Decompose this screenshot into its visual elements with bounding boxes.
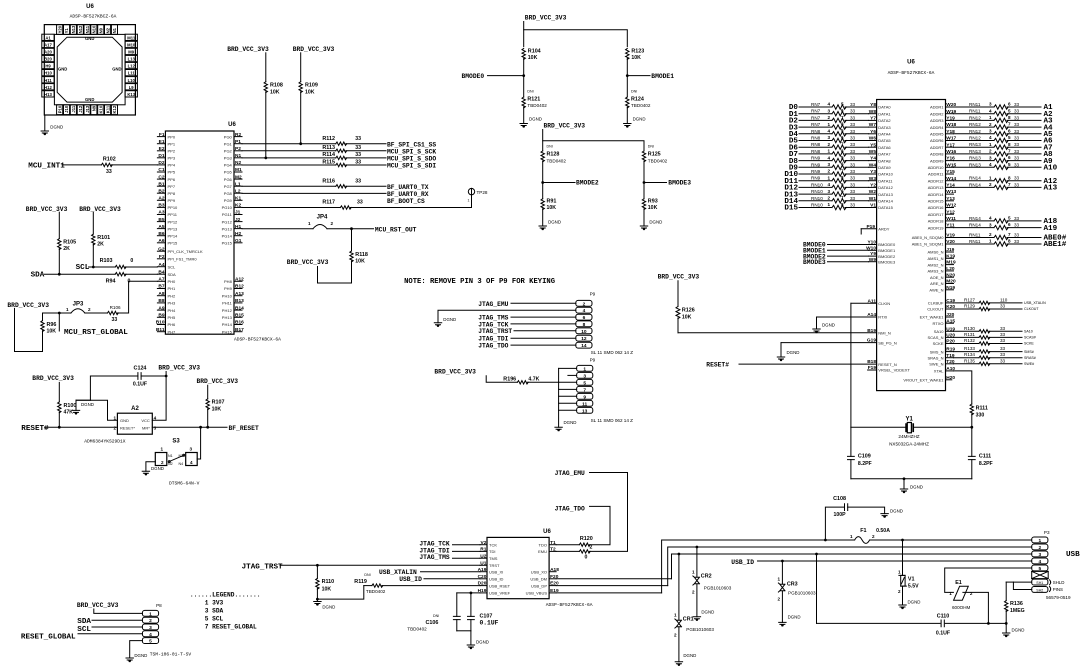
svg-text:PH11: PH11 <box>222 301 232 306</box>
svg-text:10K: 10K <box>322 586 332 592</box>
wire SDA to R94 <box>45 273 116 275</box>
svg-text:GND: GND <box>112 66 121 71</box>
svg-text:RN7: RN7 <box>811 122 821 127</box>
svg-text:3: 3 <box>827 108 830 113</box>
wire R114 to net MCU_SPI_S_SDO <box>346 157 386 159</box>
svg-text:L9: L9 <box>129 85 135 90</box>
svg-text:USB_DM: USB_DM <box>530 577 547 582</box>
svg-text:DNI: DNI <box>631 90 637 94</box>
svg-text:PH10: PH10 <box>222 293 233 298</box>
svg-text:Y1: Y1 <box>64 28 69 34</box>
svg-text:L12: L12 <box>128 64 136 69</box>
svg-text:B4: B4 <box>158 269 164 275</box>
svg-text:N1: N1 <box>168 454 173 458</box>
svg-text:R126: R126 <box>682 307 695 313</box>
svg-text:MCU_SPI_S_SDO: MCU_SPI_S_SDO <box>387 156 436 163</box>
svg-text:J12: J12 <box>78 105 83 113</box>
svg-text:W5: W5 <box>869 149 877 155</box>
svg-text:Y20: Y20 <box>57 25 62 33</box>
svg-text:RN10: RN10 <box>811 189 823 194</box>
svg-text:U1: U1 <box>480 560 486 566</box>
svg-text:ABE1_N_SDQM1: ABE1_N_SDQM1 <box>912 242 945 247</box>
svg-text:B8: B8 <box>158 298 164 304</box>
svg-text:J11: J11 <box>71 105 76 112</box>
wire R119 to USB_RSET pin <box>382 585 480 587</box>
svg-text:6: 6 <box>583 315 586 321</box>
svg-text:7: 7 <box>583 387 586 393</box>
wire R124 to ground <box>626 107 628 124</box>
U6 pin RESET_N <box>739 363 877 365</box>
resistor R111 330 <box>970 404 973 415</box>
svg-text:GND: GND <box>85 36 94 41</box>
svg-text:GND: GND <box>58 66 67 71</box>
svg-text:5: 5 <box>841 155 844 160</box>
svg-text:RN8: RN8 <box>811 149 821 154</box>
svg-text:P10: P10 <box>57 105 62 113</box>
svg-text:R101: R101 <box>97 235 110 241</box>
svg-text:7: 7 <box>841 115 844 120</box>
wire RN to DATA1 pin <box>845 113 869 115</box>
svg-text:33: 33 <box>1014 142 1020 147</box>
ground DGND under R136 <box>1003 633 1010 635</box>
wire RN to DATA14 pin <box>845 200 869 202</box>
svg-text:R125: R125 <box>648 151 661 157</box>
svg-text:33: 33 <box>1014 136 1020 141</box>
svg-text:4: 4 <box>1038 559 1041 565</box>
svg-text:JP4: JP4 <box>317 214 328 220</box>
capacitor C107 0.1UF <box>470 592 473 595</box>
svg-text:33: 33 <box>357 200 363 206</box>
svg-text:K12: K12 <box>112 105 117 113</box>
svg-text:PP15: PP15 <box>168 241 179 246</box>
svg-text:Y3: Y3 <box>870 169 876 175</box>
svg-text:DATA2: DATA2 <box>878 118 891 123</box>
svg-text:ADDR6: ADDR6 <box>930 138 944 143</box>
wire A19 from pin <box>954 227 995 229</box>
U6 pin SDA <box>157 273 165 275</box>
svg-text:8: 8 <box>1008 175 1011 180</box>
svg-text:SWE_N: SWE_N <box>929 362 943 367</box>
svg-text:JTAG_TDO: JTAG_TDO <box>478 343 508 350</box>
svg-text:F19: F19 <box>868 365 877 371</box>
wire RN14 to net A12 <box>1007 180 1041 182</box>
svg-text:1: 1 <box>989 175 992 180</box>
svg-text:3: 3 <box>827 135 830 140</box>
wire DP riser <box>668 547 1032 586</box>
svg-text:M19: M19 <box>946 260 956 266</box>
svg-text:R111: R111 <box>976 405 988 411</box>
svg-text:4: 4 <box>827 155 830 160</box>
svg-text:R1: R1 <box>480 547 486 553</box>
svg-text:33: 33 <box>850 169 856 174</box>
svg-text:PGB1010603: PGB1010603 <box>704 586 732 591</box>
svg-text:33: 33 <box>1000 332 1006 337</box>
svg-text:R132: R132 <box>964 338 975 343</box>
resistor R106 33 <box>107 311 118 314</box>
svg-text:ADM6384YKS29D1X: ADM6384YKS29D1X <box>84 438 126 444</box>
svg-text:33: 33 <box>1014 216 1020 221</box>
resistor R91 10K <box>542 183 544 199</box>
svg-text:3 SDA: 3 SDA <box>205 608 224 615</box>
wire VCC to R105 <box>58 212 60 238</box>
svg-text:PP5: PP5 <box>168 170 176 175</box>
svg-text:W2: W2 <box>869 189 877 195</box>
svg-text:6: 6 <box>1008 102 1011 107</box>
svg-text:33: 33 <box>850 136 856 141</box>
wire RESET# row through A2 MR* <box>45 426 118 428</box>
ground DGND under CR1 <box>675 662 682 664</box>
svg-text:V1: V1 <box>908 577 915 583</box>
svg-text:Y1: Y1 <box>906 416 914 422</box>
svg-text:1: 1 <box>308 221 311 226</box>
wire USB_DM row from U6 to riser <box>556 578 671 580</box>
wire USB_VREF to caps <box>457 592 480 594</box>
svg-text:BRD_VCC_3V3: BRD_VCC_3V3 <box>434 369 476 376</box>
svg-text:B7: B7 <box>158 284 164 290</box>
resistor R116 33 <box>336 185 347 188</box>
svg-text:ABE1#: ABE1# <box>1044 241 1067 249</box>
svg-text:4: 4 <box>190 460 193 465</box>
ground DGND at SB_PG_N <box>780 343 782 357</box>
wire node to BMODE1 label <box>627 75 650 77</box>
wire CLKIN down to crystal <box>850 303 852 427</box>
svg-text:L1: L1 <box>235 181 241 187</box>
svg-text:4: 4 <box>989 216 992 221</box>
svg-text:R2: R2 <box>235 132 241 138</box>
svg-text:RN12: RN12 <box>969 136 981 141</box>
svg-text:33: 33 <box>1000 338 1006 343</box>
svg-text:BMODE3: BMODE3 <box>668 179 691 186</box>
svg-text:PH5: PH5 <box>168 315 177 320</box>
svg-text:Y7: Y7 <box>870 116 876 122</box>
wire ADDR1 to RN11 <box>954 106 995 108</box>
svg-text:ADDR13: ADDR13 <box>928 185 945 190</box>
svg-text:33: 33 <box>850 176 856 181</box>
svg-text:RN14: RN14 <box>969 216 981 221</box>
U6 pin SCL <box>157 266 165 268</box>
svg-text:R109: R109 <box>305 83 318 89</box>
svg-text:5 SCL: 5 SCL <box>205 615 224 622</box>
U6 right pins PH8-PH15 <box>234 280 242 282</box>
svg-text:B1: B1 <box>158 181 164 187</box>
svg-text:B19: B19 <box>867 328 876 334</box>
svg-text:S3: S3 <box>172 438 180 444</box>
svg-text:MCU_SPI_S_SDI: MCU_SPI_S_SDI <box>387 163 436 170</box>
svg-text:R115: R115 <box>322 159 335 165</box>
svg-text:PP11: PP11 <box>168 212 178 217</box>
wire JTAG_TDO down to TDO resistor <box>589 506 610 544</box>
wire D15 to RN <box>799 207 832 209</box>
wire junction down to R118 <box>351 229 353 251</box>
svg-text:33: 33 <box>1014 115 1020 120</box>
ESD diode CR2 PGB1010603 <box>696 546 699 549</box>
svg-text:A17: A17 <box>44 43 52 48</box>
capacitor C106 TBD0402 DNI <box>456 593 458 617</box>
svg-text:PG2: PG2 <box>224 149 233 154</box>
svg-text:H2: H2 <box>235 231 241 237</box>
svg-text:R93: R93 <box>648 198 658 204</box>
svg-text:A11: A11 <box>867 298 876 304</box>
svg-text:33: 33 <box>1000 326 1006 331</box>
svg-text:B16: B16 <box>235 320 244 326</box>
svg-text:R106: R106 <box>110 305 121 310</box>
svg-text:33: 33 <box>850 149 856 154</box>
svg-text:ADSP-BF527KBCX-6A: ADSP-BF527KBCX-6A <box>234 337 281 343</box>
svg-text:TBD0402: TBD0402 <box>631 103 651 108</box>
resistor R135 33 <box>954 363 980 365</box>
resistor R126 10K <box>676 306 680 318</box>
svg-text:PP4: PP4 <box>168 163 176 168</box>
wire R128 to BMODE2 node <box>542 161 544 183</box>
svg-text:K10: K10 <box>99 105 104 113</box>
svg-text:W3: W3 <box>869 176 877 182</box>
svg-text:2: 2 <box>827 196 830 201</box>
svg-text:ARDY: ARDY <box>878 227 889 232</box>
svg-text:TDI: TDI <box>489 549 495 554</box>
resistor R104 10K <box>522 49 525 60</box>
svg-text:33: 33 <box>850 102 856 107</box>
svg-text:RN13: RN13 <box>969 149 981 154</box>
svg-text:2: 2 <box>989 149 992 154</box>
svg-text:R114: R114 <box>322 152 335 158</box>
svg-text:PG0: PG0 <box>224 134 233 139</box>
ground DGND under CR3 <box>779 622 786 624</box>
svg-text:5: 5 <box>149 639 152 645</box>
wire JTAG_TRST to pin10 <box>514 330 576 332</box>
svg-text:C2: C2 <box>158 174 164 180</box>
wire RN to DATA7 pin <box>845 153 869 155</box>
wire D14 to RN <box>799 200 832 202</box>
resistor R122 0 on EMU <box>579 550 590 553</box>
wire C110 row to DM row <box>816 554 818 623</box>
wire RN to DATA2 pin <box>845 119 869 121</box>
U6 usb-section right pins <box>549 544 556 546</box>
wire node to BMODE2 label <box>543 182 575 184</box>
svg-text:330: 330 <box>976 412 985 418</box>
svg-text:14: 14 <box>581 343 587 349</box>
svg-text:N2: N2 <box>105 27 110 33</box>
svg-text:A7: A7 <box>158 277 164 283</box>
svg-text:DGND: DGND <box>81 402 94 407</box>
svg-text:4: 4 <box>989 108 992 113</box>
svg-text:DGND: DGND <box>1012 628 1025 633</box>
svg-text:DGND: DGND <box>443 317 456 322</box>
svg-text:33: 33 <box>355 145 361 151</box>
svg-text:0.1UF: 0.1UF <box>480 620 499 627</box>
svg-text:BMODE2: BMODE2 <box>878 254 896 259</box>
svg-text:BMODE0: BMODE0 <box>462 73 485 80</box>
svg-text:N1: N1 <box>235 153 241 159</box>
svg-text:33: 33 <box>1014 102 1020 107</box>
svg-text:W6: W6 <box>869 136 877 142</box>
svg-text:J2: J2 <box>235 217 241 223</box>
svg-text:BMODE1: BMODE1 <box>651 73 674 80</box>
svg-text:R124: R124 <box>631 96 644 102</box>
svg-text:N11: N11 <box>85 25 90 33</box>
wire node to BMODE3 label <box>644 182 667 184</box>
svg-text:J20: J20 <box>946 312 954 318</box>
svg-text:SDA: SDA <box>31 271 45 279</box>
wire C124 left to A2 GND pin <box>90 376 137 400</box>
svg-text:J19: J19 <box>946 247 954 253</box>
svg-text:3: 3 <box>149 625 152 631</box>
svg-text:5: 5 <box>841 128 844 133</box>
svg-text:N19: N19 <box>946 285 955 291</box>
QFP inner pin ring <box>54 34 125 104</box>
svg-text:0: 0 <box>585 555 588 561</box>
svg-text:BRD_VCC_3V3: BRD_VCC_3V3 <box>26 206 68 213</box>
svg-text:PH0: PH0 <box>168 279 177 284</box>
svg-text:RN14: RN14 <box>969 182 981 187</box>
svg-text:RN13: RN13 <box>969 142 981 147</box>
svg-text:DGND: DGND <box>633 116 646 121</box>
svg-text:1: 1 <box>989 142 992 147</box>
svg-text:SH2: SH2 <box>1036 589 1043 593</box>
svg-text:N9: N9 <box>92 105 97 111</box>
resistor R113 33 <box>336 149 347 152</box>
svg-text:JTAG_EMU: JTAG_EMU <box>555 470 585 477</box>
svg-text:P19: P19 <box>866 224 875 230</box>
svg-text:RN12: RN12 <box>969 129 981 134</box>
svg-text:1: 1 <box>827 202 830 207</box>
svg-text:PPI_CLK_TMRCLK: PPI_CLK_TMRCLK <box>168 249 203 254</box>
svg-text:M10: M10 <box>127 43 136 48</box>
svg-text:1 3V3: 1 3V3 <box>205 600 224 607</box>
resistor R103 0 <box>115 265 126 268</box>
wire VBUS riser <box>662 540 826 593</box>
svg-text:10K: 10K <box>212 406 222 412</box>
wire R102 to PP4 <box>111 164 157 166</box>
U6 pin RTXI <box>817 316 877 318</box>
wire D1 to RN <box>799 113 832 115</box>
wire ADDR8 to RN13 <box>954 153 995 155</box>
svg-text:USB_XO: USB_XO <box>531 569 547 574</box>
svg-text:N20: N20 <box>946 272 955 278</box>
svg-text:PH15: PH15 <box>222 329 233 334</box>
wire pin3 keying stub <box>568 374 577 376</box>
svg-text:Y8: Y8 <box>870 102 876 108</box>
svg-text:BF_BOOT_CS: BF_BOOT_CS <box>387 198 425 205</box>
svg-text:CR3: CR3 <box>787 582 798 588</box>
wire R136 ground stem <box>1005 622 1008 625</box>
svg-text:0.50A: 0.50A <box>876 528 890 534</box>
svg-text:33: 33 <box>112 317 118 323</box>
svg-text:RN8: RN8 <box>811 129 821 134</box>
svg-text:5: 5 <box>841 101 844 106</box>
wire RN11 to net ABE0# <box>1007 237 1041 239</box>
svg-text:DATA14: DATA14 <box>878 199 893 204</box>
svg-text:4: 4 <box>154 416 157 421</box>
svg-text:10K: 10K <box>547 205 557 211</box>
svg-text:BRD_VCC_3V3: BRD_VCC_3V3 <box>293 46 335 53</box>
svg-text:PG3: PG3 <box>224 156 233 161</box>
svg-text:33: 33 <box>850 162 856 167</box>
wire PG13 to JP4 pin1 <box>242 228 313 230</box>
U6 pin SB_PG_N <box>781 342 877 344</box>
capacitor C111 8.2PF <box>971 427 973 456</box>
svg-text:BF_SPI_CS1_SS: BF_SPI_CS1_SS <box>387 141 436 148</box>
svg-text:H11: H11 <box>44 78 52 83</box>
wire USB_VBUS row from U6 to riser <box>556 592 662 594</box>
svg-text:600OHM: 600OHM <box>952 605 971 610</box>
svg-text:RESET*: RESET* <box>120 426 135 431</box>
svg-text:PG6: PG6 <box>224 177 233 182</box>
wire PG10 to R117 <box>242 207 340 209</box>
svg-text:DATA10: DATA10 <box>878 172 893 177</box>
svg-text:M9: M9 <box>128 50 134 55</box>
wire RN13 to net A8 <box>1007 153 1041 155</box>
svg-text:2: 2 <box>898 589 901 594</box>
svg-text:USB_DP: USB_DP <box>531 583 547 588</box>
svg-text:R136: R136 <box>1010 601 1023 607</box>
wire JTAG_TCK to pin8 <box>511 323 576 325</box>
svg-text:SWE#: SWE# <box>1024 362 1034 366</box>
svg-text:BRD_VCC_3V3: BRD_VCC_3V3 <box>525 14 567 21</box>
svg-text:U6: U6 <box>86 4 94 10</box>
svg-text:4: 4 <box>989 135 992 140</box>
svg-text:DNI: DNI <box>547 145 553 149</box>
svg-text:33: 33 <box>1014 122 1020 127</box>
svg-text:AMS1_N: AMS1_N <box>927 256 943 261</box>
svg-text:3: 3 <box>583 373 586 379</box>
svg-text:RN13: RN13 <box>969 156 981 161</box>
svg-text:PGB1010603: PGB1010603 <box>788 591 816 596</box>
svg-text:K2: K2 <box>235 203 241 209</box>
fuse F1 0.50A <box>824 539 827 542</box>
svg-text:USB_RSET: USB_RSET <box>489 583 511 588</box>
svg-text:33: 33 <box>850 109 856 114</box>
svg-text:33: 33 <box>850 196 856 201</box>
svg-text:2: 2 <box>989 122 992 127</box>
svg-text:7 RESET_GLOBAL: 7 RESET_GLOBAL <box>205 623 257 630</box>
svg-text:DGND: DGND <box>910 484 923 489</box>
wire VCC to R107 <box>207 385 209 399</box>
svg-text:8: 8 <box>583 322 586 328</box>
svg-text:1: 1 <box>827 149 830 154</box>
wire ADDR10 to RN13 <box>954 166 995 168</box>
svg-text:1: 1 <box>827 122 830 127</box>
wire RN12 to net A4 <box>1007 126 1041 128</box>
svg-text:B14: B14 <box>235 305 244 311</box>
svg-text:33: 33 <box>850 142 856 147</box>
svg-text:PH1: PH1 <box>168 286 177 291</box>
wire RN14 to net A13 <box>1007 186 1041 188</box>
svg-text:W13: W13 <box>946 189 956 195</box>
svg-text:N1: N1 <box>112 27 117 33</box>
svg-text:U2: U2 <box>480 553 486 559</box>
wire R136 to shield pins <box>1006 581 1013 583</box>
svg-text:10K: 10K <box>355 259 365 265</box>
svg-text:1: 1 <box>898 570 901 575</box>
wire VCC to R108 <box>265 53 267 82</box>
wire JP4 pin2 to junction <box>327 228 352 230</box>
svg-text:Y9: Y9 <box>870 251 876 257</box>
wire R118 to BRD_VCC_3V3 <box>318 261 352 283</box>
svg-text:N13: N13 <box>71 25 76 33</box>
svg-text:MCU_INT1: MCU_INT1 <box>28 162 65 170</box>
svg-text:33: 33 <box>355 159 361 165</box>
wire SCL to pin3 <box>92 626 142 628</box>
wire R110 to ground <box>316 588 318 599</box>
svg-text:PP2: PP2 <box>168 149 176 154</box>
svg-text:SCL: SCL <box>76 264 90 272</box>
svg-text:PG7: PG7 <box>224 184 233 189</box>
svg-text:CLKOUT: CLKOUT <box>927 307 944 312</box>
resistor R123 10K <box>626 49 629 60</box>
svg-text:1: 1 <box>66 307 69 312</box>
svg-text:U6: U6 <box>907 60 915 66</box>
wire XTAL pin to R111 <box>954 371 972 404</box>
